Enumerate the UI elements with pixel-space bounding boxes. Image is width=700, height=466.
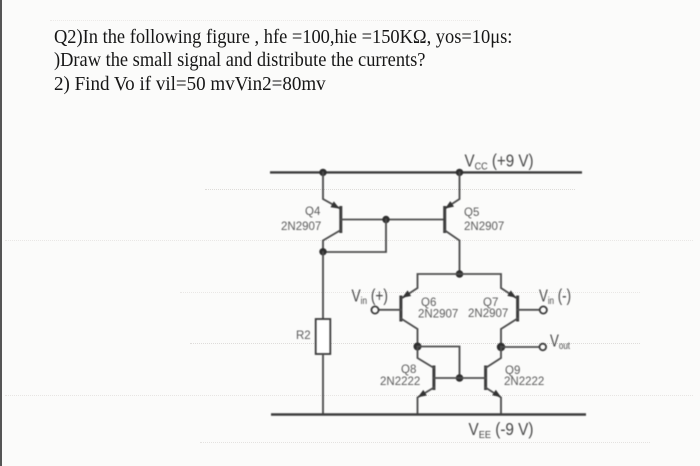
wire tail node to Q6 emitter <box>403 274 460 298</box>
wire Vcc rail <box>270 171 582 173</box>
svg-text:Vin (-): Vin (-) <box>539 285 571 307</box>
transistor Q6 2N2907 PNP <box>378 290 418 346</box>
label Vcc (+9 V) <box>465 150 534 172</box>
svg-text:Q6: Q6 <box>421 297 436 309</box>
label Q9 2N2222 <box>504 365 544 388</box>
problem text <box>54 26 552 96</box>
svg-text:Q8: Q8 <box>401 364 416 376</box>
label Vout <box>550 330 570 352</box>
terminal Vout <box>540 344 547 351</box>
wire Q5 emitter from Vcc rail <box>445 172 460 208</box>
junction Q7 collector / Q9 collector / output <box>497 343 505 351</box>
svg-text:Q5: Q5 <box>464 207 479 219</box>
wire Q4 base-collector tie <box>323 220 386 253</box>
svg-text:Vout: Vout <box>550 330 570 352</box>
transistor Q7 2N2907 PNP <box>501 290 540 346</box>
svg-text:2N2907: 2N2907 <box>418 309 458 321</box>
wire VEE rail <box>271 413 586 415</box>
svg-text:VCC (+9 V): VCC (+9 V) <box>465 150 534 172</box>
label Q5 2N2907 <box>464 207 504 233</box>
junction Q8/Q9 base node <box>456 374 464 382</box>
wire tail node to Q7 emitter <box>460 274 516 298</box>
label Q6 2N2907 <box>418 297 458 321</box>
wire Q4 collector to R2 <box>322 252 324 319</box>
label Q7 2N2907 <box>468 297 508 320</box>
label Q4 2N2907 <box>281 206 321 233</box>
svg-text:2N2222: 2N2222 <box>380 376 420 388</box>
transistor Q8 2N2222 NPN <box>418 347 460 415</box>
svg-text:2N2222: 2N2222 <box>504 376 544 388</box>
junction Vcc rail / Q4 emitter <box>319 169 326 176</box>
label R2 <box>296 330 311 342</box>
svg-text:2N2907: 2N2907 <box>464 221 504 233</box>
resistor R2 <box>316 319 331 354</box>
wire Q4 base to Q5 base <box>386 219 444 221</box>
scan page edge line <box>0 0 2 466</box>
terminal Vin(+) <box>371 306 378 313</box>
svg-text:Vin (+): Vin (+) <box>352 285 389 307</box>
junction Q4 base node <box>382 216 389 223</box>
svg-text:2N2907: 2N2907 <box>281 221 321 233</box>
label Q8 2N2222 <box>380 364 420 388</box>
transistor Q5 2N2907 PNP <box>445 201 460 274</box>
wire output node to Vout terminal <box>501 346 539 348</box>
faint ruled lines <box>0 0 700 1</box>
wire R2 to VEE rail <box>322 354 324 414</box>
label VEE (-9 V) <box>469 419 534 441</box>
junction Q4 collector / R2 <box>319 248 326 255</box>
transistor Q9 2N2222 NPN <box>460 347 502 415</box>
terminal Vin(-) <box>540 306 547 313</box>
junction Q6 collector / Q8 collector <box>414 343 422 351</box>
transistor Q4 2N2907 PNP (bar + emitter arrow + collector) <box>323 201 386 251</box>
svg-text:VEE (-9 V): VEE (-9 V) <box>469 419 534 441</box>
junction diff-pair tail node <box>456 270 464 278</box>
svg-text:R2: R2 <box>296 330 311 342</box>
svg-text:Q4: Q4 <box>305 206 321 218</box>
svg-text:2N2907: 2N2907 <box>468 308 508 320</box>
wire Q4 emitter from Vcc rail <box>323 172 340 208</box>
label Vin(+) <box>352 285 389 307</box>
wire current-mirror tie Q8 collector to bases <box>418 347 460 379</box>
junction Vcc rail / Q5 emitter <box>456 169 463 176</box>
label Vin(-) <box>539 285 571 307</box>
